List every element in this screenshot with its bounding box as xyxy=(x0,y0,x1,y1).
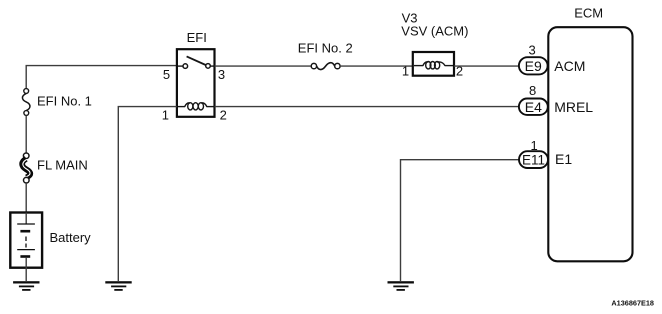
wire: top horizontal run from battery branch to relay pin 5 xyxy=(26,66,177,89)
relay coil xyxy=(178,103,214,110)
svg-text:Battery: Battery xyxy=(50,230,92,245)
svg-text:FL MAIN: FL MAIN xyxy=(37,158,88,173)
fuse EFI No. 1 xyxy=(22,89,30,116)
svg-text:E1: E1 xyxy=(555,151,572,167)
wire: VSV pin 2 to ECM E9 xyxy=(454,65,519,67)
fusible link FL MAIN xyxy=(22,153,30,183)
svg-text:5: 5 xyxy=(163,67,170,82)
svg-text:2: 2 xyxy=(220,107,227,122)
svg-text:3: 3 xyxy=(218,67,225,82)
wire: relay pin 3 to EFI No. 2 fuse xyxy=(215,65,312,67)
svg-text:VSV (ACM): VSV (ACM) xyxy=(401,23,468,38)
fuse EFI No. 2 xyxy=(311,63,340,70)
wire: EFI No. 2 fuse to VSV xyxy=(340,65,413,67)
svg-text:EFI No. 1: EFI No. 1 xyxy=(37,94,92,109)
svg-text:EFI No. 2: EFI No. 2 xyxy=(298,41,353,56)
connector E11 (pin 1, E1) xyxy=(519,151,548,168)
connector E4 (pin 8, MREL) xyxy=(519,99,548,116)
svg-text:EFI: EFI xyxy=(187,30,207,45)
svg-text:3: 3 xyxy=(529,42,536,57)
svg-text:1: 1 xyxy=(402,63,409,78)
svg-text:A136867E18: A136867E18 xyxy=(611,298,654,307)
svg-text:8: 8 xyxy=(529,83,536,98)
VSV solenoid coil xyxy=(414,61,453,68)
VSV V3 box xyxy=(413,52,454,76)
svg-text:ACM: ACM xyxy=(554,58,585,74)
ground: E1 circuit xyxy=(388,281,414,291)
ground: below battery xyxy=(13,281,39,291)
svg-text:MREL: MREL xyxy=(554,99,593,115)
svg-text:1: 1 xyxy=(162,107,169,122)
wire: between EFI No.1 fuse and FL MAIN xyxy=(25,116,27,153)
relay EFI box xyxy=(177,49,215,117)
svg-text:ECM: ECM xyxy=(574,6,603,21)
svg-text:E9: E9 xyxy=(525,58,542,74)
relay switch contacts (pins 5-3) xyxy=(178,56,214,68)
battery xyxy=(10,213,42,282)
ground: relay coil xyxy=(105,281,131,291)
ECM box xyxy=(548,27,632,261)
svg-text:E4: E4 xyxy=(525,99,542,115)
wire: FL MAIN to battery xyxy=(25,183,27,213)
svg-text:E11: E11 xyxy=(522,153,545,168)
connector E9 (pin 3, ACM) xyxy=(519,57,548,74)
wire: ECM E1 to ground xyxy=(401,160,520,281)
wire: relay coil pin 1 to ground branch xyxy=(118,107,177,281)
svg-text:1: 1 xyxy=(531,138,538,153)
wire: relay coil pin 2 to ECM E4 xyxy=(215,106,520,108)
